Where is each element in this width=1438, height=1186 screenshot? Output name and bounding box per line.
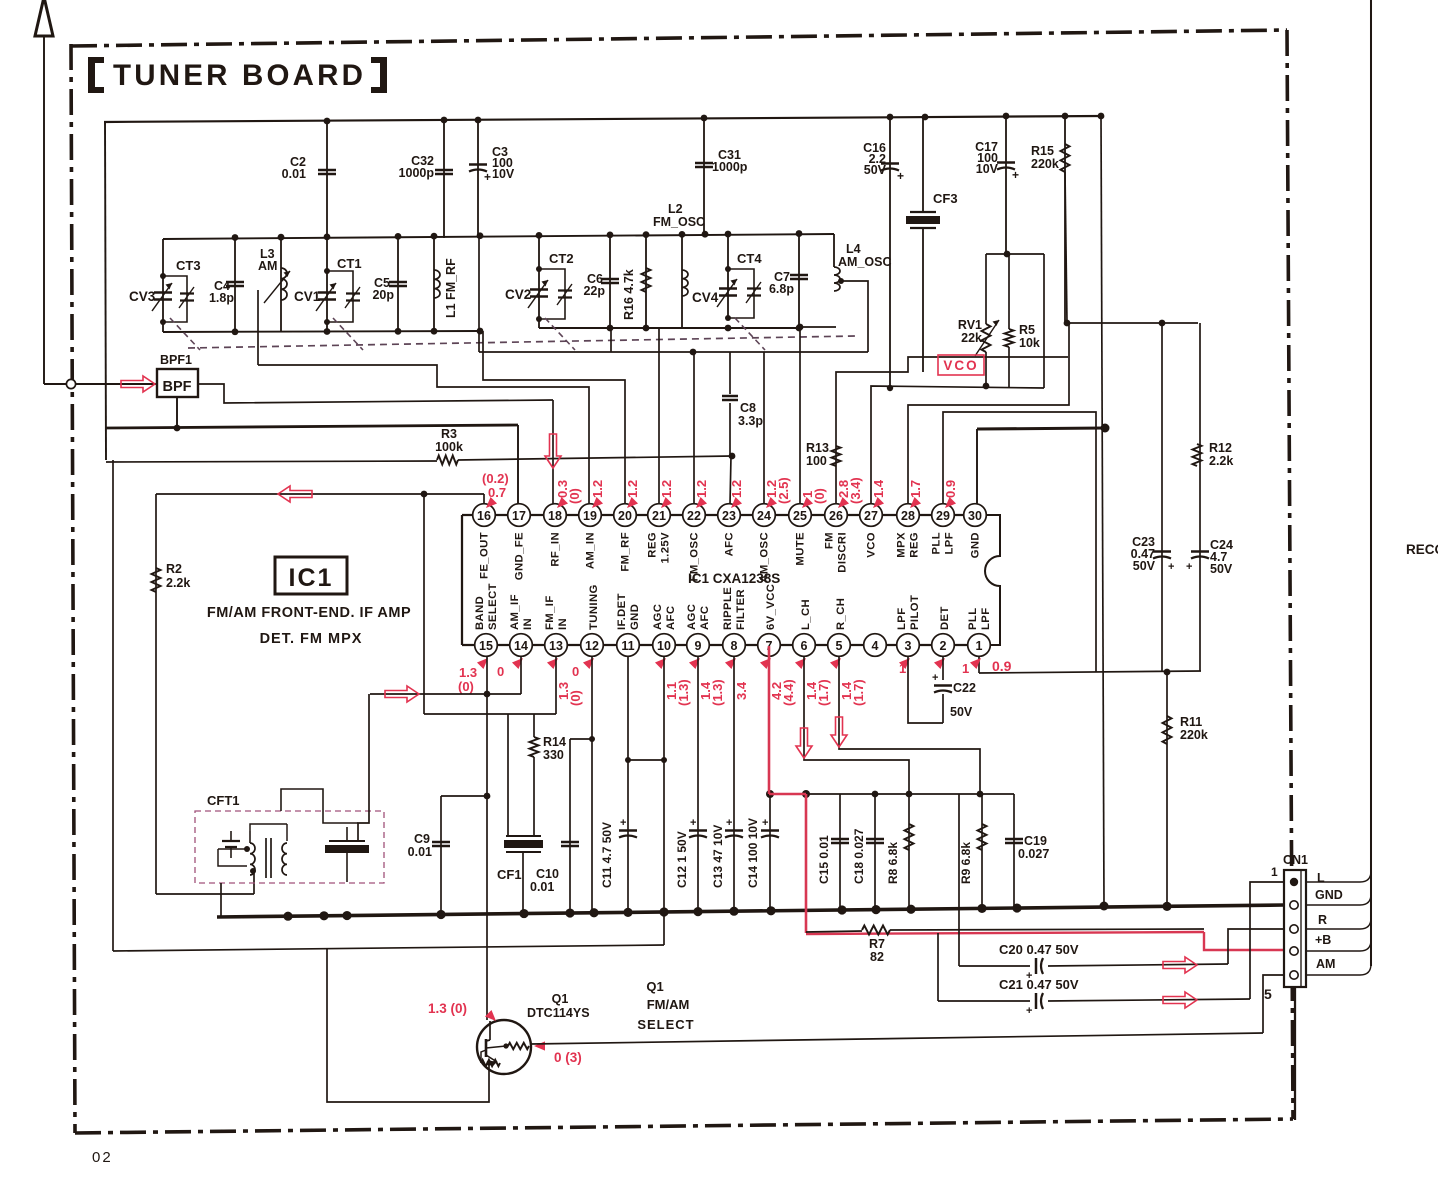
- svg-text:C14 100 10V: C14 100 10V: [746, 818, 760, 888]
- wire pin17 drop: [517, 425, 519, 504]
- junction C8 R3: [729, 453, 736, 460]
- junction RV1 bottom: [983, 383, 990, 390]
- board frame border bottom: [75, 1119, 1293, 1133]
- wire conn out curve: [1306, 964, 1371, 975]
- svg-text:1: 1: [899, 661, 906, 676]
- svg-text:C11 4.7 50V: C11 4.7 50V: [600, 822, 614, 888]
- svg-text:CT1: CT1: [337, 256, 362, 271]
- svg-text:22: 22: [687, 509, 701, 523]
- svg-text:50V: 50V: [864, 163, 887, 177]
- svg-text:C9: C9: [414, 832, 430, 846]
- gang dash diagonal: [735, 318, 765, 350]
- svg-text:30: 30: [968, 509, 982, 523]
- voltage pin29: [942, 497, 956, 511]
- svg-text:AGC: AGC: [686, 604, 698, 630]
- svg-text:AFC: AFC: [699, 606, 711, 630]
- svg-text:CV4: CV4: [692, 290, 719, 305]
- ic pin 4: [864, 634, 887, 657]
- svg-text:10V: 10V: [492, 167, 515, 181]
- junction tank rail: [536, 232, 543, 239]
- svg-text:R3: R3: [441, 427, 457, 441]
- wire pin29 route: [943, 412, 1096, 672]
- svg-text:3.4: 3.4: [734, 681, 749, 700]
- wire Q1 select line: [531, 1033, 1263, 1044]
- svg-text:1.8p: 1.8p: [209, 291, 234, 305]
- ic pin 1: [968, 634, 991, 657]
- svg-text:+: +: [484, 170, 491, 184]
- junction top rail: [441, 117, 448, 124]
- wire h1 oscillator line: [479, 351, 868, 353]
- junction tank rail: [232, 234, 239, 241]
- svg-text:0.027: 0.027: [1018, 847, 1049, 861]
- svg-text:1.2: 1.2: [590, 480, 605, 498]
- capacitor C12: [689, 829, 707, 831]
- ic pin 13: [545, 634, 568, 657]
- svg-text:R12: R12: [1209, 441, 1232, 455]
- wire tank bottom rail left: [163, 331, 480, 332]
- variable capacitor CV2: [538, 236, 540, 328]
- svg-text:(0): (0): [812, 488, 827, 504]
- svg-text:23: 23: [722, 509, 736, 523]
- ic pin 5: [828, 634, 851, 657]
- junction tank rail: [477, 232, 484, 239]
- inductor L4: [833, 234, 835, 267]
- svg-text:+: +: [932, 672, 938, 684]
- svg-text:IF.DET: IF.DET: [616, 593, 628, 630]
- ic pin 17: [508, 504, 531, 527]
- ic pin 3: [897, 634, 920, 657]
- junction ground bus: [342, 911, 351, 920]
- svg-text:C21 0.47 50V: C21 0.47 50V: [999, 977, 1079, 992]
- wire pin12 C10 spur: [570, 738, 592, 740]
- svg-text:+: +: [726, 817, 732, 829]
- svg-text:0: 0: [497, 664, 504, 679]
- svg-text:(2.5): (2.5): [776, 477, 791, 504]
- junction tank rail: [395, 233, 402, 240]
- node VCO label box: [938, 355, 984, 375]
- svg-text:4: 4: [872, 639, 879, 653]
- svg-text:R8 6.8k: R8 6.8k: [886, 842, 900, 884]
- svg-text:0.9: 0.9: [992, 658, 1012, 674]
- svg-text:BPF1: BPF1: [160, 353, 192, 367]
- wire R15 to node: [1065, 172, 1067, 323]
- svg-text:50V: 50V: [950, 705, 973, 719]
- capacitor C20: [1035, 958, 1037, 974]
- wire antenna lead: [43, 37, 45, 384]
- svg-text:MUTE: MUTE: [795, 532, 807, 566]
- svg-text:L: L: [1317, 871, 1325, 885]
- inductor L1: [433, 237, 435, 331]
- capacitor C6: [609, 236, 611, 328]
- voltage pin23: [728, 497, 742, 511]
- svg-text:16: 16: [477, 509, 491, 523]
- svg-text:FM/AM FRONT-END. IF AMP: FM/AM FRONT-END. IF AMP: [207, 605, 411, 621]
- capacitor C16: [889, 117, 891, 388]
- svg-text:C20 0.47 50V: C20 0.47 50V: [999, 942, 1079, 957]
- svg-text:1.2: 1.2: [729, 480, 744, 498]
- capacitor C21: [1035, 993, 1037, 1009]
- svg-text:L4: L4: [846, 242, 861, 256]
- wire tank bottom rail right: [539, 327, 799, 329]
- voltage pin8: [725, 655, 739, 669]
- svg-text:AGC: AGC: [652, 604, 664, 630]
- svg-text:VCO: VCO: [866, 532, 878, 558]
- gang dash diagonal: [545, 318, 575, 350]
- svg-text:1000p: 1000p: [712, 160, 748, 174]
- junction tank rail: [431, 233, 438, 240]
- capacitor C19: [1013, 794, 1015, 908]
- svg-text:3.3p: 3.3p: [738, 414, 763, 428]
- svg-text:C10: C10: [536, 867, 559, 881]
- capacitor C3: [477, 120, 479, 238]
- wire CF1 top line: [424, 713, 556, 715]
- wire REG pin21 up: [658, 328, 660, 504]
- svg-text:RV1: RV1: [958, 318, 982, 332]
- wire tank top rail: [163, 234, 834, 239]
- svg-text:220k: 220k: [1031, 157, 1059, 171]
- junction ground bus: [766, 906, 775, 915]
- ic pin 7: [758, 634, 781, 657]
- wire left rail drop: [105, 122, 106, 460]
- svg-text:FM_OSC: FM_OSC: [653, 215, 705, 229]
- svg-text:SELECT: SELECT: [637, 1017, 694, 1032]
- junction tank rail: [324, 233, 331, 240]
- wire R2 bottom: [156, 893, 254, 895]
- connector pin B: [1290, 947, 1298, 955]
- voltage pin3: [899, 655, 913, 669]
- junction tank rail: [725, 231, 732, 238]
- svg-text:1.3: 1.3: [459, 665, 477, 680]
- svg-text:LPF: LPF: [944, 532, 956, 555]
- wire VCC top rail: [104, 116, 1101, 122]
- capacitor C13: [725, 829, 743, 831]
- svg-text:BAND: BAND: [474, 596, 486, 630]
- junction tank bottom r: [796, 325, 803, 332]
- wire L3 tap: [257, 290, 259, 365]
- capacitor C15: [839, 794, 841, 910]
- svg-text:1: 1: [962, 661, 969, 676]
- cft1 core: [265, 838, 267, 878]
- ic pin 23: [718, 504, 741, 527]
- junction tank rail: [643, 231, 650, 238]
- voltage pin28: [907, 497, 921, 511]
- svg-text:330: 330: [543, 748, 564, 762]
- signal arrow C21: [1163, 992, 1197, 1008]
- svg-text:SELECT: SELECT: [487, 583, 499, 630]
- svg-text:+: +: [690, 817, 696, 829]
- svg-text:GND: GND: [629, 604, 641, 630]
- junction ground bus: [319, 911, 328, 920]
- capacitor C31: [703, 118, 705, 235]
- wire cft1 upper link: [281, 789, 358, 823]
- ic pin 24: [753, 504, 776, 527]
- voltage pin13: [547, 655, 561, 669]
- resistor R9: [981, 794, 983, 908]
- svg-text:1.7: 1.7: [908, 480, 923, 498]
- svg-text:L_CH: L_CH: [800, 599, 812, 630]
- trimmer CT2 box: [539, 269, 565, 319]
- svg-text:+: +: [1026, 1005, 1032, 1017]
- svg-text:5: 5: [836, 639, 843, 653]
- resistor R16: [645, 235, 647, 328]
- title TUNER BOARD bracket left: [88, 57, 104, 93]
- svg-text:82: 82: [870, 950, 884, 964]
- svg-text:6.8p: 6.8p: [769, 282, 794, 296]
- node antenna junction: [66, 379, 75, 388]
- svg-text:19: 19: [583, 509, 597, 523]
- cft1 resonator: [329, 840, 365, 842]
- svg-text:1: 1: [976, 639, 983, 653]
- connector pin R: [1290, 925, 1298, 933]
- label IC1 box: [275, 557, 347, 594]
- wire vcc red pin7: [768, 646, 771, 794]
- voltage pin10: [655, 655, 669, 669]
- wire BPF to ground line: [176, 397, 178, 428]
- svg-text:+: +: [1168, 561, 1174, 573]
- svg-text:220k: 220k: [1180, 728, 1208, 742]
- wire antenna to BPF: [44, 383, 157, 385]
- junction ground bus: [906, 905, 915, 914]
- ic pin 20: [614, 504, 637, 527]
- svg-text:+: +: [1186, 561, 1192, 573]
- wire cft1 to bus: [220, 883, 222, 917]
- wire conn out curve: [1306, 871, 1371, 882]
- junction ground bus: [623, 908, 632, 917]
- svg-text:26: 26: [829, 509, 843, 523]
- svg-text:(0.2): (0.2): [482, 471, 509, 486]
- resistor R15: [1064, 116, 1066, 323]
- wire AM to connector: [1263, 975, 1284, 1033]
- svg-text:R9 6.8k: R9 6.8k: [959, 842, 973, 884]
- svg-text:1.2: 1.2: [694, 480, 709, 498]
- svg-text:28: 28: [901, 509, 915, 523]
- svg-text:AM: AM: [258, 259, 277, 273]
- band pass filter BPF1: [157, 369, 198, 397]
- gang dash diagonal: [333, 318, 363, 350]
- wire pin8 column: [733, 656, 735, 911]
- svg-text:FM_RF: FM_RF: [620, 532, 632, 572]
- voltage pin16: [483, 497, 497, 511]
- wire long right vertical: [1101, 116, 1104, 906]
- wire pin12 column: [591, 656, 593, 913]
- svg-text:(4.4): (4.4): [781, 679, 796, 706]
- board frame border top: [71, 30, 1287, 46]
- connector CN1 box: [1284, 870, 1306, 987]
- wire AM_IN route: [258, 365, 589, 504]
- wire thick GND top: [977, 428, 1105, 429]
- signal arrow band: [385, 686, 419, 702]
- wire conn below: [1294, 987, 1296, 1120]
- ic pin 16: [473, 504, 496, 527]
- junction tank rail: [796, 230, 803, 237]
- svg-text:VCO: VCO: [943, 358, 978, 373]
- junction ground bus: [1012, 903, 1021, 912]
- junction tank bottom: [395, 328, 402, 335]
- junction tank bottom: [477, 328, 484, 335]
- wire PLL filter top line: [1067, 322, 1198, 324]
- L3 core arrow: [264, 271, 290, 303]
- svg-text:AFC: AFC: [665, 606, 677, 630]
- trimmer CT4 box: [728, 269, 754, 318]
- connector pin GND: [1290, 901, 1298, 909]
- svg-text:1.2: 1.2: [625, 480, 640, 498]
- wire pin11 column: [627, 656, 629, 913]
- capacitor C14: [761, 829, 779, 831]
- svg-text:(1.7): (1.7): [816, 679, 831, 706]
- svg-text:(0): (0): [568, 690, 583, 706]
- capacitor C32: [443, 120, 445, 238]
- wire agc spur: [628, 759, 664, 761]
- svg-text:BPF: BPF: [163, 379, 192, 395]
- svg-text:R11: R11: [1180, 715, 1202, 729]
- svg-text:R5: R5: [1019, 323, 1035, 337]
- wire conn out curve: [1306, 894, 1371, 905]
- ic pin 25: [789, 504, 812, 527]
- ic pin 27: [860, 504, 883, 527]
- svg-text:FILTER: FILTER: [735, 589, 747, 630]
- svg-text:(1.3): (1.3): [676, 679, 691, 706]
- svg-text:(0): (0): [458, 679, 474, 694]
- ic pin 2: [932, 634, 955, 657]
- svg-text:AFC: AFC: [724, 532, 736, 556]
- capacitor C11: [619, 829, 637, 831]
- svg-text:11: 11: [621, 639, 634, 653]
- svg-text:IN: IN: [557, 618, 569, 630]
- svg-text:+: +: [620, 817, 626, 829]
- wire pin14 drop: [520, 656, 522, 694]
- svg-text:20: 20: [618, 509, 632, 523]
- wire pin30 GND up: [976, 429, 978, 504]
- svg-text:CT4: CT4: [737, 251, 762, 266]
- svg-text:C18 0.027: C18 0.027: [852, 828, 866, 884]
- voltage pin21: [658, 497, 672, 511]
- svg-text:TUNER BOARD: TUNER BOARD: [113, 59, 366, 92]
- signal arrow LCH: [796, 728, 812, 758]
- wire L4 output: [841, 281, 868, 352]
- svg-text:FM/AM: FM/AM: [647, 997, 690, 1012]
- capacitor C10: [569, 739, 571, 915]
- resistor R2: [155, 494, 157, 894]
- resistor R3 line: [106, 461, 437, 462]
- svg-text:0.7: 0.7: [488, 485, 506, 500]
- signal arrow FE line: [278, 486, 312, 502]
- svg-text:50V: 50V: [1210, 562, 1233, 576]
- junction gnd vertical: [1101, 424, 1110, 433]
- svg-text:C19: C19: [1024, 834, 1047, 848]
- capacitor C18: [874, 794, 876, 910]
- svg-text:8: 8: [731, 639, 738, 653]
- capacitor C4: [234, 238, 236, 332]
- wire thick AGC line: [106, 425, 518, 428]
- ic pin 26: [825, 504, 848, 527]
- junction tank bottom r: [725, 325, 732, 332]
- wire pin10 column: [663, 656, 665, 945]
- svg-text:13: 13: [549, 639, 563, 653]
- svg-text:+: +: [897, 169, 904, 183]
- transformer CFT1 box: [195, 811, 384, 883]
- resistor R8: [908, 794, 910, 911]
- cft1 primary coil: [250, 843, 255, 875]
- junction top rail: [1062, 113, 1069, 120]
- svg-text:GND_FE: GND_FE: [514, 532, 526, 580]
- svg-text:RF_IN: RF_IN: [550, 532, 562, 567]
- voltage pin22: [693, 497, 707, 511]
- wire C20 left up: [958, 794, 960, 966]
- svg-text:FM: FM: [824, 532, 836, 549]
- wire pin1 down: [978, 656, 980, 673]
- svg-text:1: 1: [1271, 865, 1278, 879]
- voltage pin5: [830, 655, 844, 669]
- svg-text:25: 25: [793, 509, 807, 523]
- voltage pin7: [760, 655, 774, 669]
- resistor R13: [832, 446, 841, 466]
- svg-text:0.9: 0.9: [943, 480, 958, 498]
- junction ground bus: [519, 909, 528, 918]
- trimmer CT1 box: [327, 271, 353, 322]
- svg-text:5: 5: [1264, 986, 1272, 1002]
- junction ground bus: [729, 907, 738, 916]
- svg-text:27: 27: [864, 509, 878, 523]
- ic pin 29: [932, 504, 955, 527]
- variable capacitor CV3: [162, 239, 164, 332]
- capacitor C9: [440, 796, 442, 915]
- svg-text:3: 3: [905, 639, 912, 653]
- voltage pin6: [795, 655, 809, 669]
- svg-text:DISCRI: DISCRI: [837, 532, 849, 573]
- svg-text:R_CH: R_CH: [835, 598, 847, 630]
- capacitor C9 wire: [441, 795, 487, 797]
- wire pin3 pin2 link: [908, 656, 943, 723]
- inductor L2: [681, 235, 683, 328]
- svg-text:REG: REG: [909, 532, 921, 558]
- svg-text:R13: R13: [806, 441, 829, 455]
- svg-text:(3.4): (3.4): [848, 477, 863, 504]
- junction ground bus: [283, 912, 292, 921]
- svg-text:2.2k: 2.2k: [166, 576, 190, 590]
- svg-text:22p: 22p: [583, 284, 605, 298]
- junction line794: [906, 791, 913, 798]
- ic pin 28: [897, 504, 920, 527]
- ic pin 19: [579, 504, 602, 527]
- variable resistor RV1: [985, 352, 987, 386]
- svg-text:1000p: 1000p: [399, 166, 435, 180]
- voltage pin20: [624, 497, 638, 511]
- wire R2 join cft1: [253, 871, 254, 872]
- wire VCO box top: [986, 253, 1044, 255]
- svg-text:PILOT: PILOT: [909, 595, 921, 630]
- svg-text:0.01: 0.01: [408, 845, 432, 859]
- svg-text:12: 12: [585, 639, 599, 653]
- svg-text:100k: 100k: [435, 440, 463, 454]
- wire vcc red v: [805, 794, 808, 933]
- svg-text:FM_OSC: FM_OSC: [689, 532, 701, 581]
- voltage pin18: [554, 497, 568, 511]
- svg-text:Q1: Q1: [646, 979, 663, 994]
- svg-text:14: 14: [514, 639, 528, 653]
- voltage pin14: [512, 655, 526, 669]
- ic pin 8: [723, 634, 746, 657]
- svg-text:L2: L2: [668, 202, 683, 216]
- wire vcc red h: [769, 793, 806, 796]
- tuning gang dashed link: [188, 336, 855, 348]
- svg-text:9: 9: [695, 639, 702, 653]
- resistor R12: [1193, 444, 1202, 466]
- svg-text:MPX: MPX: [896, 532, 908, 558]
- junction tank bottom r: [607, 325, 614, 332]
- junction ground bus: [1162, 902, 1171, 911]
- svg-text:CN1: CN1: [1283, 853, 1308, 867]
- filter CF3: [922, 117, 924, 212]
